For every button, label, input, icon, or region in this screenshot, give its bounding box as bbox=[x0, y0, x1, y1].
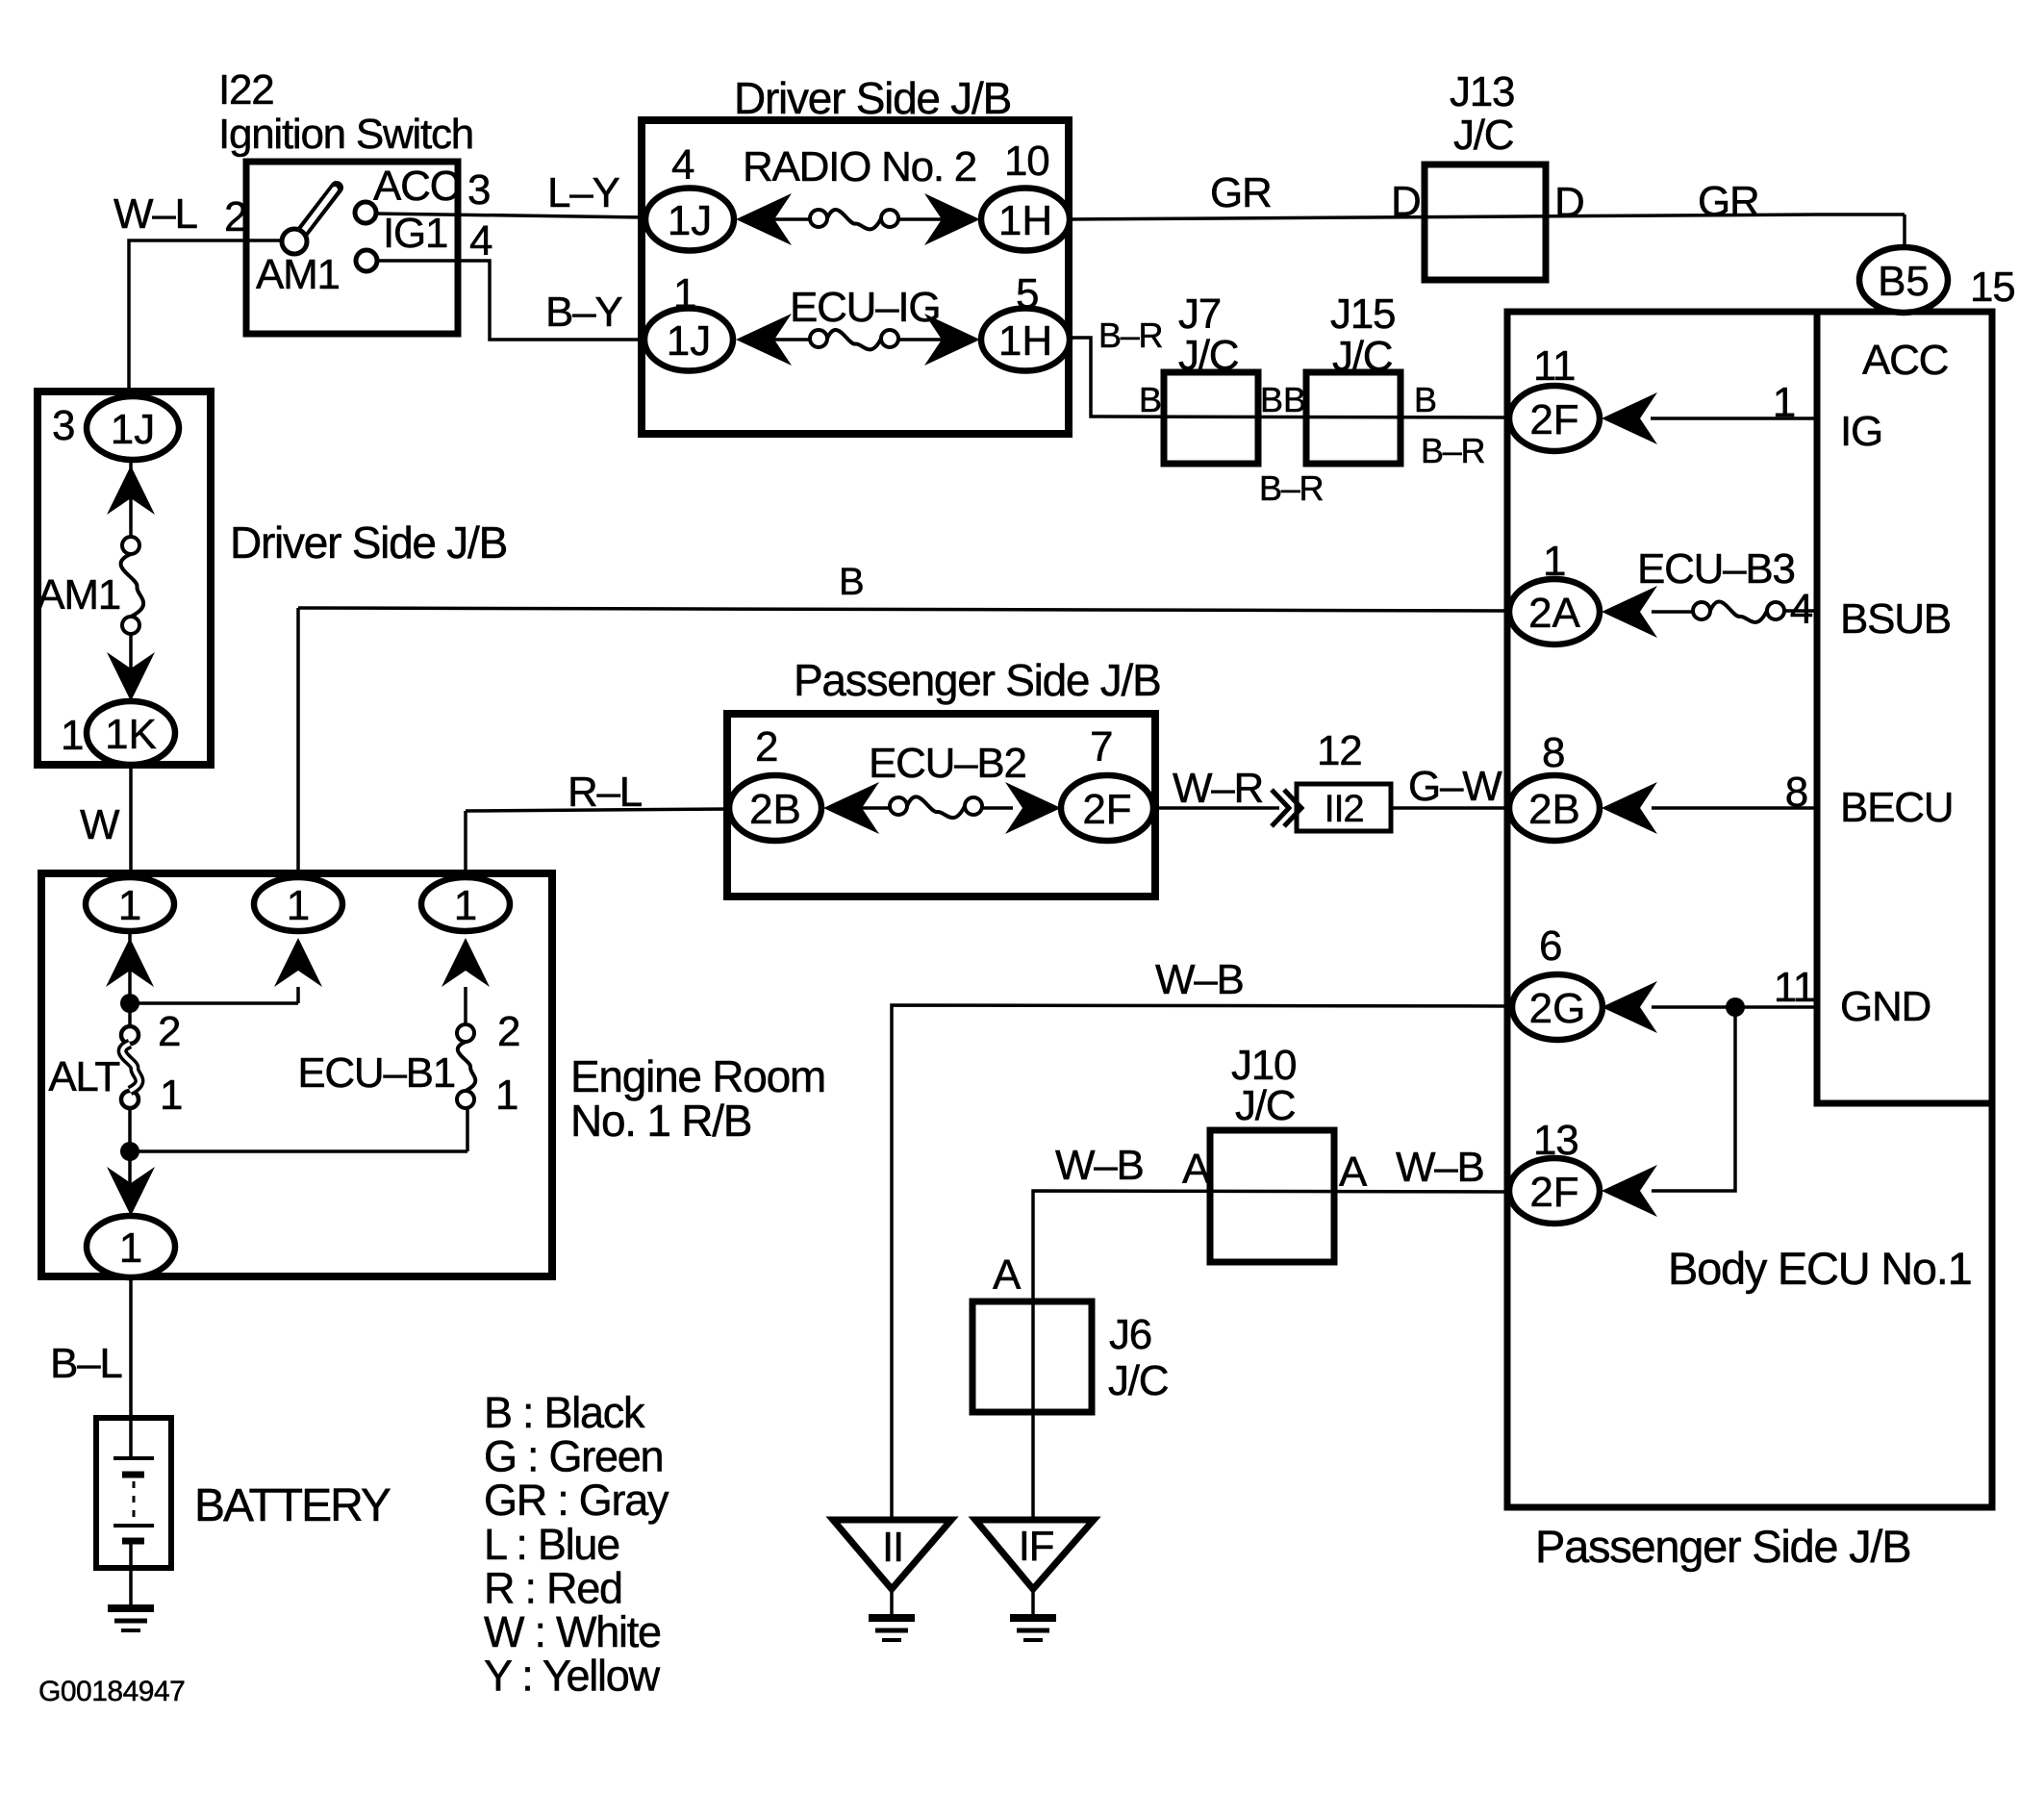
svg-text:D: D bbox=[1391, 178, 1421, 225]
svg-text:B: B bbox=[1414, 380, 1436, 419]
svg-text:J7: J7 bbox=[1178, 290, 1221, 338]
svg-text:1J: 1J bbox=[668, 197, 712, 244]
svg-text:1: 1 bbox=[61, 712, 83, 759]
svg-text:D: D bbox=[1554, 179, 1584, 226]
svg-text:IG1: IG1 bbox=[383, 210, 447, 257]
svg-text:1: 1 bbox=[287, 882, 310, 929]
svg-text:1: 1 bbox=[454, 882, 477, 929]
svg-text:1: 1 bbox=[119, 1225, 142, 1272]
svg-text:11: 11 bbox=[1533, 342, 1575, 390]
svg-text:1: 1 bbox=[1543, 538, 1565, 585]
svg-text:J/C: J/C bbox=[1178, 332, 1239, 379]
svg-text:Ignition Switch: Ignition Switch bbox=[218, 111, 473, 158]
svg-text:I22: I22 bbox=[218, 66, 273, 114]
svg-text:2B: 2B bbox=[1528, 786, 1580, 833]
svg-text:W–B: W–B bbox=[1055, 1142, 1144, 1189]
svg-text:4: 4 bbox=[1790, 586, 1813, 633]
svg-text:AM1: AM1 bbox=[37, 571, 120, 619]
svg-text:W : White: W : White bbox=[484, 1607, 661, 1656]
svg-text:GR : Gray: GR : Gray bbox=[484, 1476, 669, 1525]
svg-text:4: 4 bbox=[469, 217, 492, 265]
svg-text:J13: J13 bbox=[1450, 68, 1514, 115]
svg-text:IG: IG bbox=[1840, 408, 1882, 455]
svg-text:J/C: J/C bbox=[1332, 333, 1393, 380]
svg-text:7: 7 bbox=[1090, 723, 1112, 770]
svg-text:ACC: ACC bbox=[1862, 337, 1949, 384]
svg-text:10: 10 bbox=[1004, 138, 1048, 185]
svg-text:B–R: B–R bbox=[1259, 468, 1324, 508]
svg-text:No. 1 R/B: No. 1 R/B bbox=[570, 1096, 751, 1146]
svg-text:B–L: B–L bbox=[50, 1340, 122, 1387]
svg-text:GND: GND bbox=[1840, 983, 1930, 1030]
svg-text:Passenger Side J/B: Passenger Side J/B bbox=[1535, 1521, 1910, 1572]
svg-text:B: B bbox=[839, 561, 863, 603]
svg-text:A: A bbox=[1182, 1146, 1211, 1193]
svg-text:II2: II2 bbox=[1325, 788, 1364, 830]
svg-text:1: 1 bbox=[160, 1072, 182, 1119]
svg-text:L : Blue: L : Blue bbox=[484, 1520, 619, 1569]
svg-text:15: 15 bbox=[1970, 264, 2014, 311]
svg-text:B: B bbox=[1139, 380, 1161, 419]
svg-text:3: 3 bbox=[467, 166, 490, 214]
svg-text:1: 1 bbox=[1773, 379, 1795, 426]
svg-text:1H: 1H bbox=[998, 197, 1052, 244]
svg-text:ECU–B2: ECU–B2 bbox=[869, 740, 1026, 787]
svg-text:B: B bbox=[1283, 380, 1305, 419]
svg-text:AM1: AM1 bbox=[256, 251, 340, 298]
svg-text:J/C: J/C bbox=[1235, 1082, 1296, 1129]
svg-text:L–Y: L–Y bbox=[547, 169, 619, 216]
svg-text:1: 1 bbox=[495, 1072, 517, 1119]
svg-text:4: 4 bbox=[671, 141, 694, 189]
svg-text:ECU–B3: ECU–B3 bbox=[1637, 545, 1795, 593]
svg-text:Y : Yellow: Y : Yellow bbox=[484, 1652, 661, 1701]
svg-text:BECU: BECU bbox=[1840, 784, 1953, 831]
svg-text:J/C: J/C bbox=[1453, 112, 1514, 159]
svg-text:3: 3 bbox=[52, 402, 74, 449]
svg-text:G00184947: G00184947 bbox=[38, 1676, 185, 1707]
svg-text:1H: 1H bbox=[998, 317, 1052, 365]
svg-text:B–R: B–R bbox=[1098, 316, 1163, 355]
svg-text:G–W: G–W bbox=[1408, 763, 1502, 810]
svg-text:B–Y: B–Y bbox=[545, 289, 622, 336]
svg-text:B: B bbox=[1260, 380, 1282, 419]
svg-text:8: 8 bbox=[1785, 769, 1807, 816]
svg-text:6: 6 bbox=[1539, 922, 1561, 970]
svg-text:1K: 1K bbox=[105, 711, 157, 758]
svg-text:2: 2 bbox=[497, 1008, 519, 1055]
svg-text:GR: GR bbox=[1210, 169, 1272, 216]
svg-text:2F: 2F bbox=[1529, 396, 1578, 443]
svg-text:2F: 2F bbox=[1529, 1169, 1578, 1216]
svg-text:IF: IF bbox=[1019, 1523, 1054, 1570]
svg-text:2: 2 bbox=[224, 193, 246, 240]
svg-text:1: 1 bbox=[673, 270, 695, 317]
svg-text:RADIO No. 2: RADIO No. 2 bbox=[743, 143, 976, 190]
svg-text:1: 1 bbox=[118, 882, 141, 929]
svg-text:J6: J6 bbox=[1109, 1311, 1151, 1358]
svg-text:W–B: W–B bbox=[1155, 956, 1244, 1003]
svg-text:Passenger Side J/B: Passenger Side J/B bbox=[794, 655, 1161, 705]
svg-text:J15: J15 bbox=[1330, 290, 1395, 338]
svg-text:2A: 2A bbox=[1528, 590, 1580, 637]
svg-text:5: 5 bbox=[1016, 270, 1038, 317]
svg-text:R : Red: R : Red bbox=[484, 1563, 622, 1612]
svg-text:W–B: W–B bbox=[1396, 1144, 1484, 1191]
svg-text:II: II bbox=[882, 1524, 903, 1571]
svg-text:2B: 2B bbox=[749, 786, 801, 833]
svg-text:2: 2 bbox=[158, 1008, 180, 1055]
svg-text:BSUB: BSUB bbox=[1840, 595, 1951, 643]
svg-text:BATTERY: BATTERY bbox=[194, 1480, 391, 1531]
svg-text:8: 8 bbox=[1542, 729, 1564, 776]
svg-text:W: W bbox=[80, 801, 120, 848]
svg-text:ALT: ALT bbox=[48, 1053, 119, 1100]
svg-text:J/C: J/C bbox=[1108, 1357, 1169, 1404]
svg-text:2G: 2G bbox=[1529, 985, 1586, 1032]
svg-text:W–L: W–L bbox=[114, 190, 198, 238]
svg-text:Engine Room: Engine Room bbox=[570, 1051, 825, 1101]
svg-text:ECU–B1: ECU–B1 bbox=[297, 1049, 455, 1097]
svg-text:Body ECU No.1: Body ECU No.1 bbox=[1668, 1243, 1972, 1294]
svg-text:ECU–IG: ECU–IG bbox=[790, 284, 940, 331]
svg-text:W–R: W–R bbox=[1173, 765, 1263, 812]
svg-text:12: 12 bbox=[1317, 727, 1361, 774]
svg-text:Driver Side J/B: Driver Side J/B bbox=[230, 518, 507, 568]
svg-text:2F: 2F bbox=[1082, 786, 1131, 833]
svg-text:13: 13 bbox=[1533, 1117, 1577, 1164]
svg-text:2: 2 bbox=[755, 723, 777, 770]
svg-text:A: A bbox=[993, 1251, 1022, 1299]
svg-text:R–L: R–L bbox=[568, 769, 643, 816]
svg-text:G : Green: G : Green bbox=[484, 1432, 663, 1481]
svg-text:B : Black: B : Black bbox=[484, 1388, 645, 1437]
svg-text:1J: 1J bbox=[111, 406, 155, 453]
svg-text:B–R: B–R bbox=[1421, 431, 1485, 470]
svg-text:B5: B5 bbox=[1878, 258, 1930, 305]
svg-text:A: A bbox=[1339, 1149, 1368, 1196]
svg-text:ACC: ACC bbox=[373, 163, 460, 210]
svg-text:GR: GR bbox=[1698, 178, 1759, 225]
svg-text:1J: 1J bbox=[667, 317, 711, 365]
svg-text:Driver Side J/B: Driver Side J/B bbox=[734, 73, 1011, 123]
svg-text:11: 11 bbox=[1774, 964, 1815, 1011]
